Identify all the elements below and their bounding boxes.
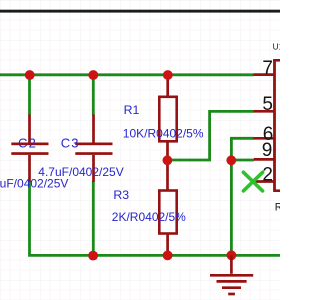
- sheet border line (top, black): [0, 10, 280, 13]
- junction node B1 divider mid: [163, 155, 173, 165]
- junction node R3 bottom: [163, 251, 173, 261]
- svg-text:4.7uF/0402/25V: 4.7uF/0402/25V: [0, 177, 68, 191]
- wire main horizontal net to pin 7: [0, 73, 254, 76]
- svg-text:10K/R0402/5%: 10K/R0402/5%: [123, 126, 204, 140]
- ground: [210, 255, 253, 294]
- wire pin 9 stub connection: [231, 159, 254, 162]
- junction node B2 gnd net: [226, 155, 236, 165]
- pin 9 stub: [254, 158, 275, 161]
- svg-text:R: R: [275, 202, 280, 214]
- pin 6 stub: [254, 137, 275, 140]
- svg-text:2K/R0402/5%: 2K/R0402/5%: [112, 210, 186, 224]
- svg-text:9: 9: [262, 140, 273, 161]
- resistor R3: [159, 160, 176, 255]
- svg-text:R1: R1: [124, 103, 140, 117]
- pin 5 stub: [254, 110, 275, 113]
- svg-text:2: 2: [262, 164, 273, 185]
- svg-text:C2: C2: [18, 136, 37, 151]
- no-ERC marker pin 2: [243, 172, 262, 191]
- svg-text:5: 5: [262, 94, 273, 115]
- pin 7 stub: [254, 73, 275, 76]
- wire C3 vertical upper: [92, 75, 95, 116]
- junction node A2: [88, 70, 98, 80]
- svg-text:C3: C3: [61, 136, 80, 151]
- wire pin 6 to gnd node: [231, 138, 254, 160]
- wire divider mid node to pin 5: [168, 111, 255, 160]
- junction node gnd symbol: [227, 250, 237, 260]
- junction node A3: [163, 70, 173, 80]
- wire C2 vertical upper: [28, 75, 31, 116]
- svg-text:7: 7: [262, 58, 273, 79]
- op-amp U? body edge: [273, 59, 280, 190]
- wire C2 vertical lower and bottom GND bus: [30, 181, 281, 255]
- pin 2 stub: [254, 180, 275, 183]
- capacitor C3: [75, 115, 112, 183]
- junction node A1: [25, 70, 35, 80]
- capacitor C2: [11, 115, 48, 183]
- wire C3 vertical lower: [92, 181, 95, 255]
- svg-text:U1: U1: [273, 42, 280, 52]
- svg-text:R3: R3: [113, 188, 129, 202]
- wire gnd node vertical drop: [230, 160, 233, 255]
- junction node C3 bottom: [88, 251, 98, 261]
- resistor R1: [159, 75, 176, 160]
